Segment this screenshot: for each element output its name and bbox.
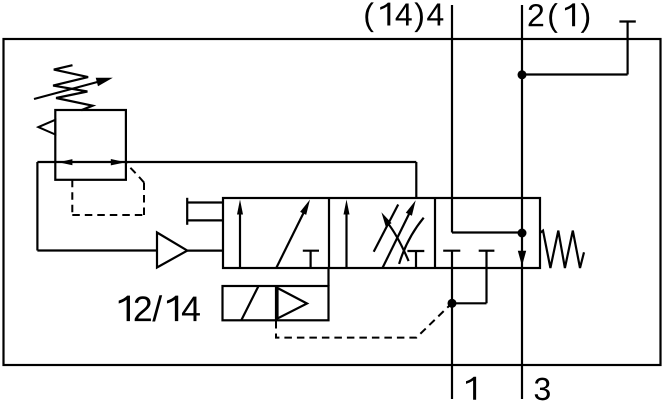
wire: left branch down xyxy=(36,162,38,251)
port label 2(1) xyxy=(529,3,590,33)
wire: from plug down-left to node on 2(1) xyxy=(522,73,628,75)
valve V1 body (3 positions) xyxy=(223,198,540,268)
plugged port terminator top right xyxy=(619,22,635,75)
pilot control dashed line 12/14 to node on 1 xyxy=(276,306,450,338)
port label (14)4 xyxy=(365,2,443,32)
regulator adjustment arrow xyxy=(34,78,113,99)
position b: left throttle curve xyxy=(374,205,399,252)
wire: valve to pilot solenoid box xyxy=(327,268,329,286)
position b: vertical flow arrow xyxy=(344,200,350,269)
regulator relief triangle xyxy=(38,120,55,135)
node: junction dot on 2(1) at top xyxy=(518,70,527,79)
port label 3 xyxy=(535,378,550,401)
position c: port T (to exhaust branch) xyxy=(452,251,494,304)
node: junction dot on line 1 xyxy=(448,299,457,308)
position b: straight throttle arrow xyxy=(382,200,416,268)
regulator internal double arrowheads xyxy=(59,159,73,165)
wire: supply line through regulator (y=162) xyxy=(37,161,416,163)
pilot solenoid box xyxy=(223,286,329,320)
regulator pilot feedback dashed line xyxy=(72,164,144,215)
wire: port line (14)4 vertical xyxy=(451,5,453,233)
position a: diagonal flow arrow xyxy=(276,200,310,269)
position b: right throttle curve xyxy=(399,218,424,264)
position a: vertical flow arrow xyxy=(237,200,243,269)
valve divider b|c xyxy=(434,198,436,268)
wire: elbow down to valve position b top xyxy=(415,162,417,198)
position a: blocked port T xyxy=(303,251,319,268)
position c: node dot on 2 line xyxy=(518,229,527,238)
wire: left branch to amplifier xyxy=(37,249,157,251)
regulator adjustable spring xyxy=(53,65,93,110)
valve return spring xyxy=(540,231,584,268)
solenoid coil diagonal xyxy=(241,287,258,321)
wire: amplifier output to valve xyxy=(187,250,223,252)
pressure regulator R1 body xyxy=(55,110,126,180)
manual override push button xyxy=(187,198,223,225)
position b: crossing arrow (up-left) xyxy=(381,212,408,261)
pilot box divider xyxy=(275,286,277,320)
pilot amplifier triangle xyxy=(278,288,308,319)
position b: blocked port T xyxy=(407,251,424,268)
wire: port line 1 vertical (T1 stem down to label 1) xyxy=(451,251,453,399)
wire: (14)4 link into valve to node on 2 line xyxy=(452,231,522,233)
label 12/14 xyxy=(119,295,200,321)
amplifier (booster) triangle xyxy=(157,233,187,268)
valve divider a|b xyxy=(328,198,330,268)
wire: port line 2(1) vertical xyxy=(521,5,523,399)
position c: down arrowhead on 2 line xyxy=(518,251,526,266)
port label 1 xyxy=(466,377,476,400)
enclosure frame xyxy=(4,39,661,365)
position c: port T (to 1) xyxy=(443,250,460,252)
